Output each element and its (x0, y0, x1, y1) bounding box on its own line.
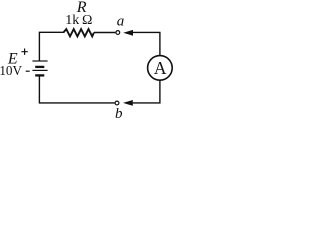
svg-text:10V: 10V (0, 63, 22, 78)
svg-text:1k Ω: 1k Ω (65, 13, 92, 28)
svg-text:a: a (117, 14, 125, 30)
svg-text:b: b (115, 106, 123, 122)
svg-text:A: A (154, 58, 167, 78)
